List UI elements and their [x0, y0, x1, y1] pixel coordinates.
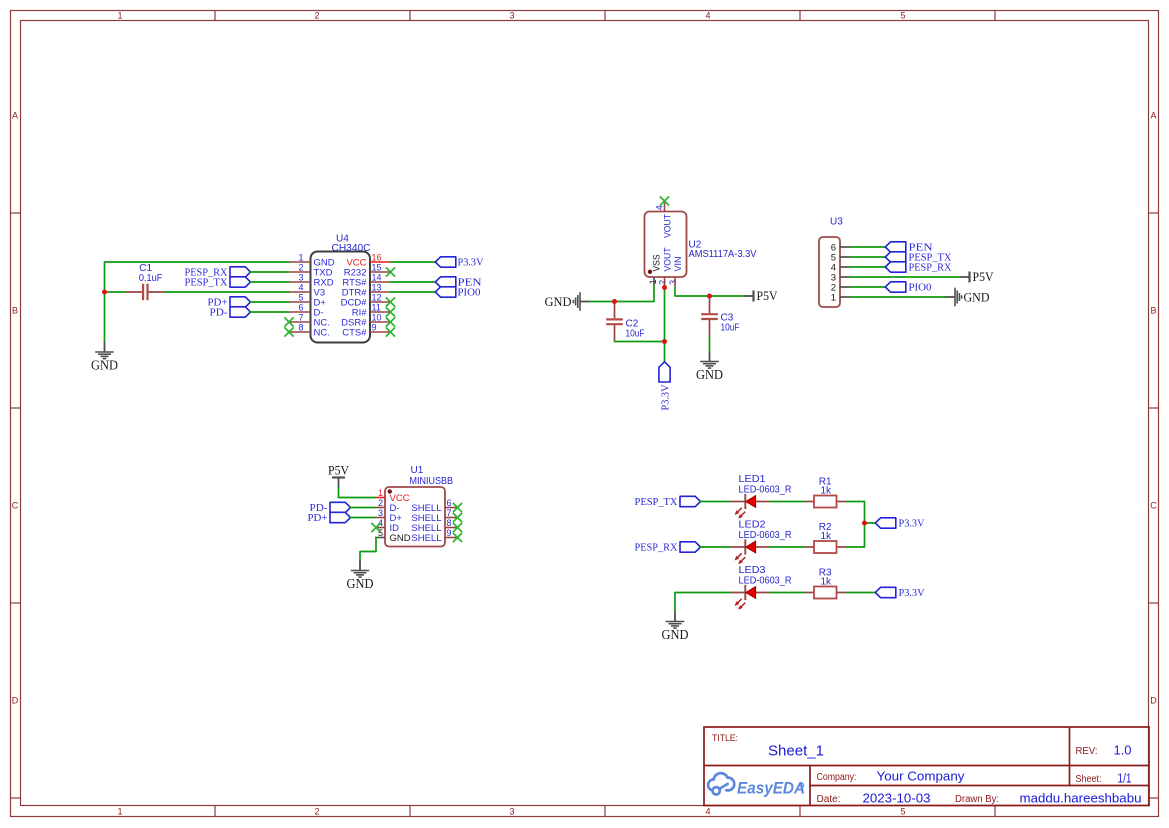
- svg-text:11: 11: [372, 302, 381, 312]
- svg-text:A: A: [1150, 111, 1156, 121]
- svg-text:7: 7: [298, 312, 303, 322]
- svg-text:1k: 1k: [821, 531, 833, 542]
- svg-text:GND: GND: [662, 627, 689, 642]
- capacitor C3 10uF: [701, 296, 739, 337]
- svg-text:6: 6: [298, 302, 303, 312]
- no-connect U1 pin4: [371, 523, 380, 532]
- svg-text:Your Company: Your Company: [877, 770, 966, 784]
- port PD- (U4 pin6): [210, 306, 251, 318]
- no-connect U1 pin7: [453, 513, 462, 522]
- svg-text:10uF: 10uF: [721, 322, 740, 333]
- svg-text:3: 3: [298, 272, 303, 282]
- svg-text:MINIUSBB: MINIUSBB: [410, 476, 454, 487]
- svg-text:maddu.hareeshbabu: maddu.hareeshbabu: [1020, 792, 1142, 806]
- svg-text:6: 6: [447, 498, 452, 508]
- wire U1 pin5 to GND: [360, 538, 376, 561]
- no-connect U4 right pin y332: [386, 327, 395, 336]
- wire LED1 to R1: [770, 501, 804, 503]
- svg-text:PESP_RX: PESP_RX: [635, 541, 678, 553]
- svg-text:1: 1: [831, 292, 836, 303]
- svg-text:GND: GND: [696, 367, 723, 382]
- svg-text:P5V: P5V: [757, 289, 778, 303]
- svg-text:0.1uF: 0.1uF: [139, 273, 163, 284]
- wire U3 pin6 to PEN: [851, 246, 886, 248]
- junction dot node C1-left: [102, 290, 107, 295]
- svg-text:B: B: [1150, 306, 1156, 316]
- svg-text:12: 12: [372, 292, 382, 302]
- svg-text:SHELL: SHELL: [411, 533, 441, 544]
- title block: [704, 727, 1149, 806]
- svg-text:1k: 1k: [821, 576, 833, 587]
- port PIO0 (U3 pin2): [885, 281, 932, 293]
- wire PD-: [351, 507, 376, 509]
- wire U4 pin16 to P3.3V: [391, 261, 436, 263]
- wire PESP_TX: [251, 281, 290, 283]
- svg-text:D: D: [1150, 696, 1157, 706]
- svg-text:LED-0603_R: LED-0603_R: [739, 484, 792, 495]
- svg-text:VSS: VSS: [652, 255, 663, 272]
- svg-text:D: D: [12, 696, 19, 706]
- no-connect U1 pin9: [453, 533, 462, 542]
- wire LED3 to R3: [770, 592, 804, 594]
- no-connect U4 right pin y322: [386, 317, 395, 326]
- svg-text:5: 5: [900, 11, 905, 21]
- wire PD+: [251, 301, 290, 303]
- svg-text:1: 1: [117, 807, 122, 817]
- svg-text:P3.3V: P3.3V: [899, 587, 925, 599]
- svg-text:2: 2: [314, 11, 319, 21]
- svg-text:LED-0603_R: LED-0603_R: [739, 530, 792, 541]
- svg-text:GND: GND: [964, 289, 990, 304]
- wire U3 pin3 to P5V: [851, 276, 961, 278]
- svg-text:C: C: [1150, 501, 1157, 511]
- svg-text:A: A: [12, 111, 18, 121]
- wire C3 to GND: [709, 337, 711, 352]
- port PESP_TX (LED1): [635, 496, 701, 508]
- svg-text:PESP_RX: PESP_RX: [909, 261, 952, 273]
- no-connect U4 right pin y302: [386, 297, 395, 306]
- svg-text:GND: GND: [390, 533, 411, 544]
- junction dot node P3.3V/C2: [662, 339, 667, 344]
- port PD- (U1 pin2): [310, 502, 351, 514]
- svg-text:4: 4: [298, 282, 303, 292]
- svg-text:2: 2: [658, 280, 668, 285]
- svg-text:U1: U1: [411, 465, 424, 476]
- svg-text:C: C: [12, 501, 19, 511]
- junction dot node C2-top: [612, 299, 617, 304]
- svg-text:PIO0: PIO0: [909, 281, 932, 293]
- svg-text:4: 4: [654, 205, 664, 210]
- svg-text:P3.3V: P3.3V: [899, 517, 925, 529]
- svg-text:1: 1: [378, 488, 383, 498]
- svg-text:8: 8: [298, 322, 303, 332]
- svg-text:9: 9: [447, 528, 452, 538]
- svg-text:2: 2: [314, 807, 319, 817]
- wire PD-: [251, 311, 290, 313]
- IC U2 AMS1117A-3.3V: [645, 203, 757, 288]
- no-connect U4 right pin y312: [386, 307, 395, 316]
- svg-text:10: 10: [372, 312, 382, 322]
- svg-text:8: 8: [447, 518, 452, 528]
- svg-text:VOUT: VOUT: [662, 214, 673, 238]
- svg-text:3: 3: [509, 807, 514, 817]
- port PEN (U3 pin6): [885, 241, 932, 253]
- ground flag GND (U3 pin1): [945, 288, 990, 307]
- port PESP_RX (U3 pin4): [885, 261, 951, 273]
- svg-text:AMS1117A-3.3V: AMS1117A-3.3V: [689, 249, 757, 260]
- wire PESP_RX to LED2: [701, 546, 731, 548]
- port P3.3V (U4 pin16): [435, 256, 483, 268]
- power flag P5V (U3 pin3): [961, 270, 994, 284]
- svg-text:13: 13: [372, 282, 382, 292]
- port PESP_TX (U3 pin5): [885, 251, 951, 263]
- wire R3 to P3.3V: [847, 592, 876, 594]
- svg-text:4: 4: [705, 807, 710, 817]
- wire PD+: [351, 517, 376, 519]
- svg-text:16: 16: [372, 252, 382, 262]
- svg-text:Sheet:: Sheet:: [1076, 774, 1102, 785]
- svg-text:GND: GND: [545, 294, 572, 309]
- junction dot node C3-top: [707, 294, 712, 299]
- svg-text:5: 5: [900, 807, 905, 817]
- ground GND (below C3): [696, 352, 723, 383]
- svg-text:1.0: 1.0: [1114, 744, 1132, 758]
- wire GND row to U2 pin1: [590, 286, 654, 302]
- wire R1/R2 to P3.3V bus: [847, 502, 865, 548]
- svg-text:3: 3: [668, 280, 678, 285]
- svg-text:LED-0603_R: LED-0603_R: [739, 575, 792, 586]
- port P3.3V (LED3): [875, 587, 924, 599]
- svg-text:CH340C: CH340C: [332, 243, 371, 254]
- ground GND (C1 net): [91, 342, 118, 373]
- svg-text:PD-: PD-: [210, 306, 228, 318]
- svg-text:P5V: P5V: [973, 270, 994, 284]
- port PD+ (U1 pin3): [308, 512, 351, 524]
- resistor R2 1k: [804, 522, 847, 553]
- svg-text:REV:: REV:: [1076, 745, 1098, 757]
- port P3.3V (vertical, below U2): [659, 362, 671, 411]
- svg-text:1: 1: [117, 11, 122, 21]
- no-connect U1 pin8: [453, 523, 462, 532]
- svg-text:EasyEDA: EasyEDA: [737, 780, 805, 798]
- port P3.3V (LED1/LED2): [875, 517, 924, 529]
- svg-text:9: 9: [372, 322, 377, 332]
- wire U3 pin5 to PESP_TX: [851, 256, 886, 258]
- svg-text:U3: U3: [830, 217, 843, 228]
- capacitor C2 10uF: [606, 302, 644, 342]
- power flag P5V (above U1): [328, 464, 349, 488]
- no-connect U2 pin4: [660, 196, 669, 205]
- junction dot P3.3V bus: [862, 521, 867, 526]
- svg-text:CTS#: CTS#: [342, 327, 367, 338]
- wire PESP_TX to LED1: [701, 501, 731, 503]
- wire U2 pin2 down to flag: [664, 286, 666, 362]
- svg-text:14: 14: [372, 272, 382, 282]
- no-connect U1 pin6: [453, 503, 462, 512]
- wire C1 to U4 pin4: [165, 291, 290, 293]
- LED LED1 LED-0603_R: [730, 474, 792, 519]
- svg-text:5: 5: [298, 292, 303, 302]
- port PIO0 (U4 pin13): [435, 286, 481, 298]
- IC U4 CH340C: [289, 234, 391, 343]
- ground GND (LED3): [662, 612, 689, 643]
- svg-text:B: B: [12, 306, 18, 316]
- svg-text:Sheet_1: Sheet_1: [768, 744, 824, 760]
- svg-text:PESP_TX: PESP_TX: [635, 496, 678, 508]
- resistor R1 1k: [804, 477, 847, 508]
- svg-text:NC.: NC.: [314, 327, 330, 338]
- LED LED2 LED-0603_R: [730, 520, 792, 565]
- wire C2 bottom to P3.3V net: [615, 341, 665, 343]
- svg-text:1: 1: [298, 252, 303, 262]
- no-connect U4 pin7: [284, 317, 293, 326]
- svg-text:GND: GND: [347, 576, 374, 591]
- power flag P5V (right of U2): [745, 289, 778, 303]
- svg-text:Date:: Date:: [817, 794, 841, 805]
- port PESP_RX (U4 pin2): [185, 266, 251, 278]
- svg-text:2: 2: [378, 498, 383, 508]
- svg-text:TITLE:: TITLE:: [712, 733, 738, 744]
- svg-text:10uF: 10uF: [626, 328, 645, 339]
- svg-text:P3.3V: P3.3V: [659, 384, 671, 410]
- wire LED2 to R2: [770, 546, 804, 548]
- no-connect U4 pin8: [284, 327, 293, 336]
- svg-text:Company:: Company:: [817, 772, 857, 783]
- port PESP_RX (LED2): [635, 541, 701, 553]
- resistor R3 1k: [804, 568, 847, 599]
- svg-text:Drawn By:: Drawn By:: [955, 794, 999, 805]
- port PESP_TX (U4 pin3): [185, 276, 251, 288]
- svg-text:15: 15: [372, 262, 382, 272]
- svg-text:P3.3V: P3.3V: [458, 256, 484, 268]
- svg-text:1/1: 1/1: [1118, 772, 1132, 786]
- svg-text:3: 3: [509, 11, 514, 21]
- wire U4 pin13 to PIO0: [391, 291, 436, 293]
- wire U3 pin2 to PIO0: [851, 286, 886, 288]
- wire C1 left: [105, 291, 125, 293]
- svg-text:VOUT: VOUT: [662, 247, 673, 271]
- connector U3: [819, 217, 851, 307]
- EasyEDA logo: [708, 773, 805, 797]
- svg-text:2023-10-03: 2023-10-03: [863, 792, 931, 806]
- junction dot U2 pin2: [662, 285, 667, 290]
- svg-text:PD+: PD+: [308, 512, 328, 524]
- svg-text:PIO0: PIO0: [458, 286, 481, 298]
- wire P5V to U1 pin1: [339, 488, 376, 498]
- svg-text:4: 4: [705, 11, 710, 21]
- ground GND (below U1): [347, 561, 374, 592]
- svg-text:7: 7: [447, 508, 452, 518]
- wire net GND left vertical: [105, 262, 290, 342]
- svg-text:PESP_TX: PESP_TX: [185, 276, 228, 288]
- port PD+ (U4 pin5): [208, 296, 251, 308]
- wire PESP_RX: [251, 271, 290, 273]
- svg-text:GND: GND: [91, 358, 118, 373]
- no-connect U4 right pin y272: [386, 267, 395, 276]
- svg-text:VIN: VIN: [673, 256, 684, 271]
- wire junction to P3.3V flag: [865, 522, 876, 524]
- ground flag GND (left of U2): [545, 292, 591, 311]
- svg-text:2: 2: [298, 262, 303, 272]
- wire U3 pin4 to PESP_RX: [851, 266, 886, 268]
- wire U2 pin3 to P5V: [675, 288, 745, 297]
- svg-text:1: 1: [648, 279, 658, 284]
- port PEN (U4 pin14): [435, 276, 481, 288]
- wire U4 pin14 to PEN: [391, 281, 436, 283]
- svg-text:P5V: P5V: [328, 464, 349, 478]
- LED LED3 LED-0603_R: [730, 565, 792, 610]
- svg-text:3: 3: [378, 508, 383, 518]
- connector U1 MINIUSBB: [375, 465, 457, 547]
- svg-text:1k: 1k: [821, 485, 833, 496]
- wire U3 pin1 to GND: [851, 296, 946, 298]
- capacitor C1: [125, 263, 165, 300]
- wire LED3 to GND: [675, 593, 730, 612]
